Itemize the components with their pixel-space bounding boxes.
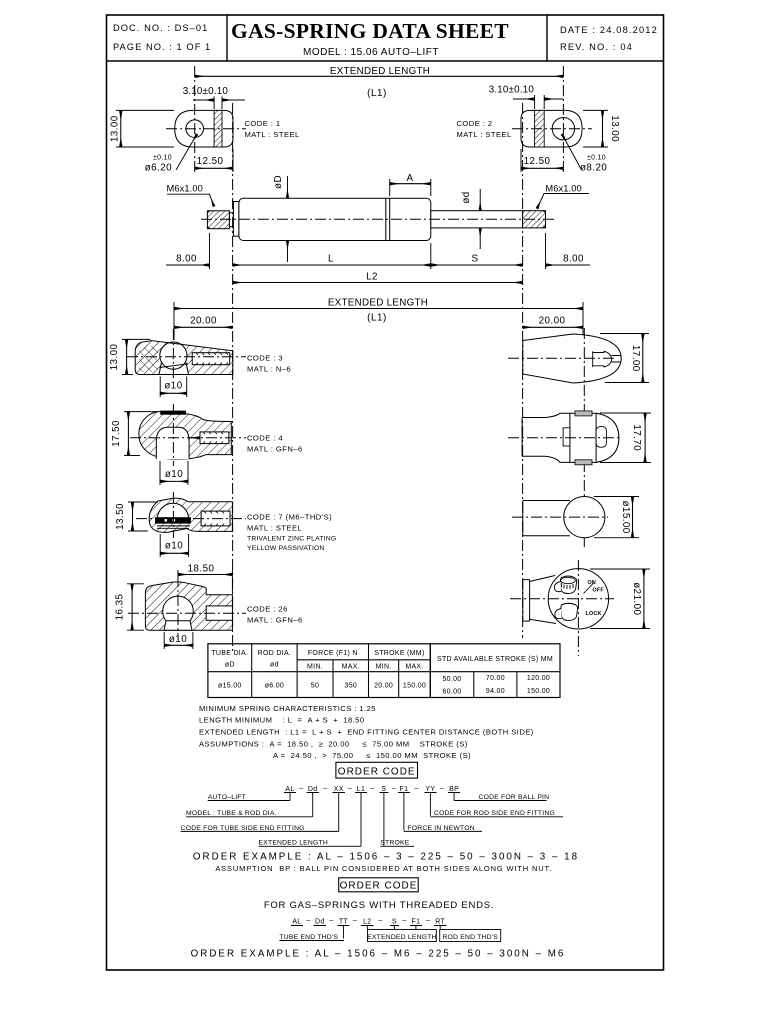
tree label code for tube side end fitting	[181, 825, 339, 832]
svg-text:AUTO–LIFT: AUTO–LIFT	[208, 794, 246, 801]
dimension L	[233, 243, 431, 269]
dimension 17.00	[600, 334, 649, 383]
svg-text:TT: TT	[339, 919, 349, 926]
svg-text:STD AVAILABLE STROKE (S) MM: STD AVAILABLE STROKE (S) MM	[437, 656, 553, 663]
dimension 13.50 code 7	[115, 502, 158, 531]
svg-text:MATL : STEEL: MATL : STEEL	[247, 524, 302, 533]
code 1 label	[245, 119, 300, 139]
svg-text:FORCE (F1) N: FORCE (F1) N	[308, 650, 358, 657]
svg-text:CODE : 2: CODE : 2	[457, 119, 493, 128]
doc no text	[113, 23, 211, 52]
svg-text:ROD END THD'S: ROD END THD'S	[442, 934, 498, 941]
svg-text:CODE : 4: CODE : 4	[247, 434, 283, 443]
svg-text:CODE FOR ROD SIDE END FITTING: CODE FOR ROD SIDE END FITTING	[434, 810, 555, 817]
dimension 8.00 left	[166, 233, 210, 269]
svg-text:Dd: Dd	[308, 786, 318, 793]
svg-text:13.50: 13.50	[115, 503, 126, 530]
table data text	[218, 675, 550, 696]
dimension 13.00 code 3	[109, 339, 150, 374]
svg-text:EXTENDED LENGTH: EXTENDED LENGTH	[328, 298, 428, 309]
svg-text:øD: øD	[225, 662, 235, 669]
svg-text:OFF: OFF	[593, 588, 605, 594]
tree label code for rod side end fitting	[430, 810, 563, 817]
svg-text:17.00: 17.00	[630, 345, 641, 372]
dimension 3.10 left	[183, 86, 245, 109]
svg-text:ORDER EXAMPLE : AL – 1506 – 3: ORDER EXAMPLE : AL – 1506 – 3 – 225 – 50…	[193, 852, 579, 863]
svg-text:STROKE (MM): STROKE (MM)	[374, 650, 424, 657]
dimension extended length L1 top	[195, 66, 564, 99]
svg-text:EXTENDED LENGTH: EXTENDED LENGTH	[330, 66, 430, 77]
svg-text:DOC. NO. : DS–01: DOC. NO. : DS–01	[113, 23, 208, 33]
svg-text:TRIVALENT ZINC PLATING: TRIVALENT ZINC PLATING	[247, 536, 336, 543]
tree label extended length	[259, 840, 362, 847]
svg-text:ø10: ø10	[165, 469, 183, 480]
svg-text:150.00: 150.00	[527, 688, 550, 695]
center line right eyelet horizontal	[512, 128, 592, 130]
svg-text:ORDER CODE: ORDER CODE	[338, 766, 416, 777]
eyelet fitting code 1 body	[175, 110, 233, 147]
svg-text:18.50: 18.50	[188, 564, 215, 575]
svg-text:Dd: Dd	[315, 919, 325, 926]
threaded ends subtitle	[264, 900, 494, 911]
svg-text:MATL : STEEL: MATL : STEEL	[457, 130, 512, 139]
dimension label diameter D	[273, 175, 288, 262]
tree label tube end thds	[279, 934, 344, 941]
svg-text:YELLOW PASSIVATION: YELLOW PASSIVATION	[247, 545, 325, 552]
tree label model tube rod dia	[186, 810, 313, 817]
svg-text:RT: RT	[435, 919, 445, 926]
code 26 label	[247, 605, 303, 625]
dimension 3.10 right	[489, 85, 563, 110]
svg-text:MATL : N–6: MATL : N–6	[247, 365, 291, 374]
svg-text:ød: ød	[270, 662, 279, 669]
svg-text:EXTENDED LENGTH: EXTENDED LENGTH	[367, 934, 436, 941]
center lines fitting d15	[512, 516, 608, 518]
dimension A	[390, 173, 431, 196]
token underlines and connectors row 1	[284, 793, 460, 847]
center line left eyelet vertical	[194, 66, 196, 173]
end fitting side view ball diameter 15	[523, 496, 605, 537]
sheet title	[231, 19, 509, 58]
svg-text:S: S	[392, 919, 397, 926]
ball socket fitting code 26 cross-section	[145, 581, 232, 630]
order code tokens row 1	[285, 785, 459, 793]
svg-text:60.00: 60.00	[442, 689, 461, 696]
svg-text:(L1): (L1)	[367, 313, 387, 324]
svg-text:A: A	[407, 173, 414, 184]
center lines code 4	[130, 404, 246, 466]
tree label auto-lift	[208, 794, 290, 801]
order code box 2	[339, 878, 419, 892]
svg-text:50: 50	[311, 683, 319, 690]
tree label extended length boxed	[367, 930, 436, 942]
svg-text:DATE : 24.08.2012: DATE : 24.08.2012	[560, 25, 658, 35]
svg-text:16.35: 16.35	[115, 594, 126, 621]
code 2 label	[457, 119, 512, 139]
svg-text:TUBE END THD'S: TUBE END THD'S	[279, 934, 338, 941]
svg-text:50.00: 50.00	[442, 676, 461, 683]
svg-text:150.00: 150.00	[403, 683, 426, 690]
svg-text:3.10±0.10: 3.10±0.10	[489, 85, 535, 96]
svg-text:–: –	[378, 918, 382, 925]
svg-text:CODE : 1: CODE : 1	[245, 119, 281, 128]
collar tube side	[233, 202, 239, 237]
svg-text:13.00: 13.00	[110, 115, 121, 142]
svg-text:ød: ød	[461, 191, 472, 203]
center lines knob	[510, 560, 614, 656]
svg-text:ORDER CODE: ORDER CODE	[340, 881, 418, 892]
center lines code 7	[136, 492, 246, 538]
ball socket fitting code 3 cross-section	[135, 341, 233, 375]
svg-text:–: –	[392, 785, 396, 792]
svg-text:350: 350	[345, 683, 358, 690]
dimension diameter 10 code 3	[160, 377, 187, 398]
svg-text:F1: F1	[400, 786, 409, 793]
svg-text:–: –	[370, 785, 374, 792]
end fitting side view control knob diameter 21	[523, 569, 609, 629]
svg-text:MATL : STEEL: MATL : STEEL	[245, 130, 300, 139]
reference plane line tube side	[232, 103, 234, 651]
ball socket fitting code 4 cross-section	[139, 411, 231, 460]
svg-text:–: –	[323, 785, 327, 792]
svg-text:AL: AL	[285, 786, 294, 793]
gas spring tube body	[239, 198, 431, 240]
threaded stud tube side	[207, 211, 233, 229]
svg-text:±0.10: ±0.10	[153, 155, 172, 162]
dimension diameter 10 code 26	[164, 632, 193, 649]
label diameter 8.20 with leader	[562, 134, 607, 174]
piston rod	[431, 211, 523, 228]
knob button lower	[555, 603, 578, 620]
svg-text:20.00: 20.00	[539, 316, 566, 327]
svg-text:LENGTH MINIMUM : L = A +: LENGTH MINIMUM : L = A + S + 18.50	[199, 716, 365, 725]
svg-text:–: –	[353, 918, 357, 925]
svg-text:ø21.00: ø21.00	[631, 582, 642, 615]
svg-text:MATL : GFN–6: MATL : GFN–6	[247, 445, 303, 454]
svg-text:EXTENDED LENGTH: EXTENDED LENGTH	[259, 840, 328, 847]
dimension 18.50 code 26	[178, 564, 232, 593]
svg-text:–: –	[426, 918, 430, 925]
dimension 13.00 right eyelet	[583, 110, 620, 147]
svg-text:L1: L1	[357, 786, 365, 793]
ball socket fitting code 7 cross-section	[149, 498, 232, 532]
svg-text:S: S	[472, 254, 479, 265]
drawing sheet border	[107, 15, 664, 970]
gas spring center line	[201, 218, 557, 220]
svg-text:17.50: 17.50	[111, 420, 122, 447]
svg-text:XX: XX	[334, 786, 344, 793]
tree label force in newton	[404, 825, 482, 832]
svg-text:MINIMUM SPRING CHARACTERISTICS: MINIMUM SPRING CHARACTERISTICS : 1.25	[199, 704, 376, 713]
svg-text:120.00: 120.00	[527, 675, 550, 682]
dimension extended length L1 lower	[174, 298, 583, 341]
svg-text:REV. NO. : 04: REV. NO. : 04	[560, 42, 633, 52]
svg-text:ø6.00: ø6.00	[265, 683, 284, 690]
dimension diameter 10 code 4	[160, 461, 188, 485]
svg-text:–: –	[306, 918, 310, 925]
notes minimum spring characteristics	[199, 704, 534, 760]
end fitting side view 17.70	[522, 411, 619, 465]
svg-text:L: L	[328, 254, 334, 265]
svg-text:CODE : 7 (M6–THD'S): CODE : 7 (M6–THD'S)	[247, 513, 332, 522]
svg-text:M6x1.00: M6x1.00	[545, 184, 581, 194]
dimension 12.50 right eyelet	[521, 149, 563, 172]
svg-text:AL: AL	[292, 919, 301, 926]
svg-text:8.00: 8.00	[563, 254, 584, 265]
svg-text:–: –	[299, 785, 303, 792]
svg-text:±0.10: ±0.10	[587, 155, 606, 162]
svg-text:13.00: 13.00	[609, 115, 620, 142]
label M6x1.00 right	[537, 184, 589, 209]
svg-text:–: –	[348, 785, 352, 792]
svg-text:CODE : 3: CODE : 3	[247, 354, 283, 363]
svg-text:12.50: 12.50	[524, 156, 551, 167]
svg-text:TUBE DIA.: TUBE DIA.	[211, 650, 248, 657]
svg-text:BP: BP	[449, 786, 459, 793]
svg-text:øD: øD	[273, 175, 284, 189]
svg-text:17.70: 17.70	[631, 424, 642, 451]
svg-text:FORCE IN NEWTON: FORCE IN NEWTON	[407, 825, 474, 832]
svg-text:A = 24.50 , > 75.00 ≤: A = 24.50 , > 75.00 ≤ 150.00 MM STROKE (…	[273, 751, 471, 760]
svg-text:MAX.: MAX.	[405, 664, 423, 671]
svg-text:EXTENDED LENGTH : L1 = L + S: EXTENDED LENGTH : L1 = L + S + END FITTI…	[199, 728, 534, 737]
svg-text:CODE FOR TUBE SIDE END FITTING: CODE FOR TUBE SIDE END FITTING	[181, 825, 305, 832]
order example 1	[193, 852, 579, 874]
center lines fitting 17.70	[508, 437, 620, 439]
svg-text:STROKE: STROKE	[380, 840, 409, 847]
dimension diameter 10 code 7	[160, 534, 188, 557]
date / rev text	[560, 25, 658, 52]
center lines fitting 17.00	[508, 328, 616, 547]
label diameter 6.20 with leader	[145, 134, 197, 174]
order example 2	[191, 948, 566, 959]
table header text	[211, 650, 553, 671]
dimension 20.00 right	[523, 316, 583, 328]
svg-text:CODE FOR BALL PIN: CODE FOR BALL PIN	[479, 794, 550, 801]
tree label code for ball pin	[454, 794, 549, 801]
svg-text:20.00: 20.00	[374, 683, 393, 690]
svg-text:MATL : GFN–6: MATL : GFN–6	[247, 616, 303, 625]
knob button upper	[554, 576, 576, 594]
order code box 1	[336, 762, 418, 778]
code 3 label	[247, 354, 291, 374]
svg-text:ø10: ø10	[164, 381, 182, 392]
svg-text:S: S	[381, 786, 386, 793]
svg-text:13.00: 13.00	[109, 344, 120, 371]
knob labels	[584, 580, 605, 617]
center line right eyelet vertical	[562, 66, 564, 173]
svg-text:MODEL : TUBE & ROD DIA.: MODEL : TUBE & ROD DIA.	[186, 810, 277, 817]
dimension 17.70	[600, 413, 651, 463]
center lines code 26	[128, 576, 246, 640]
svg-text:(L1): (L1)	[367, 88, 387, 99]
title block header box	[107, 15, 664, 61]
svg-text:20.00: 20.00	[190, 316, 217, 327]
dimension diameter 15.00	[594, 497, 639, 538]
svg-text:MAX.: MAX.	[342, 664, 360, 671]
svg-text:–: –	[440, 785, 444, 792]
center lines code 3	[127, 329, 246, 380]
end fitting side view 17.00	[523, 334, 621, 383]
dimension 17.50 code 4	[111, 412, 158, 456]
svg-text:ø15.00: ø15.00	[218, 683, 242, 690]
token underlines and connectors row 2	[291, 926, 447, 939]
dimension 12.50 left eyelet	[195, 149, 233, 172]
svg-text:ORDER EXAMPLE : AL – 1506 – M6: ORDER EXAMPLE : AL – 1506 – M6 – 225 – 5…	[191, 948, 566, 959]
svg-text:–: –	[402, 918, 406, 925]
center line left eyelet horizontal	[166, 128, 246, 130]
svg-text:L2: L2	[363, 919, 371, 926]
svg-text:L2: L2	[366, 272, 378, 283]
svg-text:ASSUMPTIONS : A = 18.50 , ≥: ASSUMPTIONS : A = 18.50 , ≥ 20.00 ≤ 75.0…	[199, 740, 468, 749]
dimension L2	[233, 272, 523, 283]
svg-text:3.10±0.10: 3.10±0.10	[183, 86, 229, 97]
dimension 13.00 left eyelet	[110, 110, 175, 147]
svg-text:FOR GAS–SPRINGS WITH THREADED: FOR GAS–SPRINGS WITH THREADED ENDS.	[264, 900, 494, 911]
svg-text:ø6.20: ø6.20	[145, 163, 172, 174]
svg-text:MODEL : 15.06 AUTO–LIFT: MODEL : 15.06 AUTO–LIFT	[303, 47, 439, 58]
svg-text:PAGE NO. : 1 OF 1: PAGE NO. : 1 OF 1	[113, 42, 211, 52]
eyelet fitting code 2 body	[521, 110, 582, 147]
svg-text:M6x1.00: M6x1.00	[167, 184, 203, 194]
code 4 label	[247, 434, 303, 454]
svg-text:ROD DIA.: ROD DIA.	[258, 650, 292, 657]
svg-text:94.00: 94.00	[486, 688, 505, 695]
svg-text:MIN.: MIN.	[376, 664, 392, 671]
svg-text:8.00: 8.00	[176, 254, 197, 265]
svg-text:ASSUMPTION BP : BALL PIN CONS: ASSUMPTION BP : BALL PIN CONSIDERED AT B…	[215, 864, 552, 873]
svg-text:MIN.: MIN.	[307, 664, 323, 671]
svg-text:GAS-SPRING DATA SHEET: GAS-SPRING DATA SHEET	[231, 19, 509, 43]
svg-text:–: –	[414, 785, 418, 792]
svg-text:ø8.20: ø8.20	[580, 163, 607, 174]
dimension label diameter d	[461, 189, 480, 249]
threaded rod end	[523, 211, 546, 228]
svg-text:ø10: ø10	[169, 634, 187, 645]
svg-text:12.50: 12.50	[197, 156, 224, 167]
dimension 20.00 left	[174, 316, 233, 328]
reference plane line rod side	[522, 103, 524, 638]
specification table grid	[208, 644, 560, 698]
tree label rod end thds boxed	[440, 930, 501, 942]
dimension 8.00 right	[546, 233, 591, 269]
dimension diameter 21.00	[590, 569, 650, 629]
tree label stroke	[380, 840, 414, 847]
dimension 16.35 code 26	[115, 584, 145, 630]
svg-text:LOCK: LOCK	[586, 611, 602, 617]
code 7 label	[247, 513, 336, 553]
svg-text:CODE : 26: CODE : 26	[247, 605, 288, 614]
svg-text:–: –	[329, 918, 333, 925]
svg-text:ø10: ø10	[165, 541, 183, 552]
order code tokens row 2	[292, 918, 445, 926]
svg-text:YY: YY	[425, 786, 435, 793]
svg-text:70.00: 70.00	[486, 675, 505, 682]
label M6x1.00 left	[167, 184, 215, 207]
svg-text:ø15.00: ø15.00	[620, 500, 631, 533]
dimension S	[431, 254, 523, 266]
svg-text:F1: F1	[412, 919, 421, 926]
